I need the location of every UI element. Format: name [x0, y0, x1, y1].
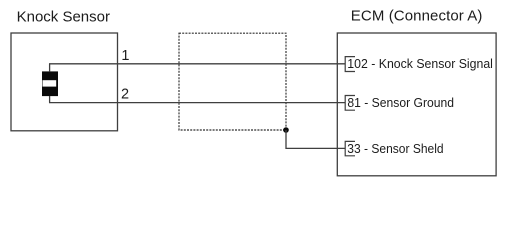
ECM connector box — [337, 33, 496, 176]
svg-text:ECM (Connector A): ECM (Connector A) — [351, 8, 483, 25]
wire 2 (sensor ground) — [49, 102, 345, 104]
knock sensor element (piezo) — [42, 71, 58, 96]
svg-text:2: 2 — [121, 87, 129, 103]
shield wire to pin 33 — [286, 130, 345, 148]
shield junction dot — [283, 127, 289, 133]
svg-text:1: 1 — [121, 48, 129, 64]
knock sensor box — [11, 33, 118, 131]
pin 33 terminal bracket — [345, 141, 355, 155]
sensor bottom lead — [49, 96, 51, 103]
svg-text:33 - Sensor Sheld: 33 - Sensor Sheld — [347, 141, 443, 156]
wire 1 (knock sensor signal) — [49, 63, 345, 65]
sensor top lead — [49, 64, 51, 72]
svg-text:Knock Sensor: Knock Sensor — [17, 9, 110, 26]
shield (dashed box) — [179, 33, 286, 130]
pin 102 terminal bracket — [345, 57, 355, 72]
svg-text:102 - Knock Sensor Signal: 102 - Knock Sensor Signal — [347, 56, 493, 71]
pin 81 terminal bracket — [345, 96, 355, 111]
svg-text:81 - Sensor Ground: 81 - Sensor Ground — [347, 95, 454, 110]
